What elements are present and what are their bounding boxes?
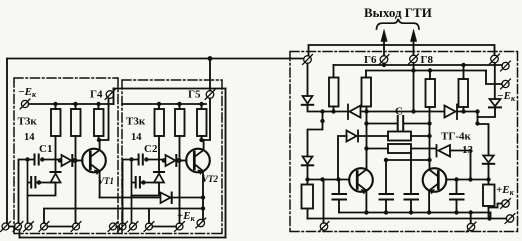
resistor R3 TG <box>429 71 431 80</box>
wire: C2g bottom stem <box>385 200 387 213</box>
wire: VD16 to corner into x477 <box>478 107 496 117</box>
node R7 top <box>486 177 490 181</box>
wire: R4 bottom stem to y112 wire <box>463 107 465 112</box>
wire: y70.5 rail (R2 - G8 - R3) <box>366 70 486 72</box>
node VD15 drop <box>468 177 472 181</box>
node Rb1 right <box>427 134 431 138</box>
pin input left of TG <box>303 55 313 65</box>
wire: C right lead <box>404 123 429 125</box>
node gnd pin drop <box>469 210 473 214</box>
wire: R1 bottom stem <box>333 107 335 112</box>
svg-text:14: 14 <box>24 132 35 143</box>
node: base junction block2 <box>177 158 181 162</box>
diode VD14 (pointing right, outline) feeding Rb1 <box>347 131 359 142</box>
wire: rail riser to G4 feed wire <box>113 89 115 105</box>
node c4g <box>454 210 458 214</box>
node on rail <box>73 102 77 106</box>
transistor VT1 <box>82 149 106 175</box>
wire: +Ek distribution to pins 4 and 9 <box>44 209 203 224</box>
capacitor C2 <box>139 155 143 165</box>
node on rail <box>96 102 100 106</box>
wire: VD4 bottom jog to pin8 <box>132 183 160 196</box>
wire: Rb2 right lead <box>411 148 437 150</box>
wire: C3g stems <box>410 153 412 213</box>
output arrow G8 <box>413 40 415 55</box>
wire: left outer drop to bottom pin <box>6 59 8 224</box>
node: lower capacitor riser on C2 wire <box>129 157 133 161</box>
wire: R7g bottom jog to +Ek pin <box>489 180 502 208</box>
capacitor C1 <box>35 155 39 165</box>
wire: Rb1 left lead <box>358 135 388 137</box>
node cross wire right <box>427 158 431 162</box>
long coupling wire y112 <box>323 111 478 113</box>
wire: VT2 collector up <box>203 140 205 150</box>
resistor Rb2 (horizontal) <box>388 144 411 153</box>
wire: Rb1 right lead <box>411 135 430 137</box>
wire: rail right corner down to lower wire <box>490 213 492 219</box>
node after C1 <box>40 157 44 161</box>
wire: cross wire to right collector <box>386 159 430 161</box>
wire: VT3 emitter down <box>365 191 367 213</box>
node G6 drop <box>383 63 385 65</box>
pin 3 <box>24 222 34 232</box>
wire: right pin chain down <box>494 63 496 99</box>
node after lower capacitor2 <box>141 180 145 184</box>
pin 9 <box>144 222 154 232</box>
wire: drop at x225 to bottom return <box>225 89 227 238</box>
resistor R7g (+Ek) <box>483 185 495 207</box>
svg-text:13: 13 <box>462 144 474 156</box>
wire: R5 bottom to base wire2 <box>179 136 181 161</box>
wire: bottom return wire <box>20 237 226 239</box>
wire: lower pin wire <box>308 218 507 220</box>
diode VD11 (pointing left, outline) on y112 <box>348 105 361 120</box>
diode VD4 block2 (vertical, pointing up) <box>154 172 164 183</box>
resistor R5 block2 <box>179 104 181 109</box>
node Rb2 left <box>364 146 368 150</box>
diode VD16 (down) right chain <box>489 99 501 107</box>
wire: diode to base VT2 <box>178 160 187 162</box>
wire: VD13 to base node <box>307 165 309 179</box>
output arrow G6 <box>383 40 385 56</box>
node base-left chain <box>305 177 309 181</box>
wire: base-left pin drop <box>323 180 325 223</box>
svg-text:Г5: Г5 <box>188 89 201 101</box>
node before diode <box>58 158 62 162</box>
wire: R1 bottom to diode VD2 <box>55 136 57 171</box>
wire: R7g drop to lower wire <box>488 208 490 219</box>
svg-text:−Eк: −Eк <box>18 86 37 99</box>
svg-text:ТГ-4к: ТГ-4к <box>441 131 471 143</box>
wire: R3 bottom to collector node <box>98 136 100 140</box>
node: emitter junction <box>201 195 205 199</box>
pin right lower <box>505 214 515 224</box>
node G8 drop on y112 <box>411 109 415 113</box>
node on lower wire <box>487 216 491 220</box>
node on rail <box>53 102 57 106</box>
diode VD1 block1 (series, pointing right) <box>62 155 73 166</box>
node after diode <box>72 158 76 162</box>
transistor VT3 (left of TG) <box>349 168 373 194</box>
wire: lower capacitor2 to diode branch <box>141 182 159 184</box>
wire: bottom return riser to pin <box>19 230 21 238</box>
node after lower capacitor <box>37 180 41 184</box>
wire: collector right vertical <box>429 107 431 169</box>
node R1 bottom <box>331 109 335 113</box>
node on +Ek riser <box>201 206 205 210</box>
transistor VT2 <box>186 149 210 175</box>
node: lower capacitor riser on C1 wire <box>25 157 29 161</box>
node G8 on y70.5 <box>411 68 415 72</box>
wire: long feed wire to right (y88) <box>114 88 226 90</box>
transistor VT4 (right of TG, mirrored) <box>423 168 447 194</box>
wire: VD17 to base-right node <box>488 164 490 180</box>
wire: C4g stems <box>456 180 458 213</box>
svg-text:Выход ГТИ: Выход ГТИ <box>364 5 432 20</box>
wire: VT1 collector up to node <box>99 140 101 150</box>
capacitor C3g <box>405 194 419 200</box>
node cap4 stem <box>454 177 458 181</box>
wire: R2 bottom to base wire <box>75 136 77 161</box>
wire: VT1 emitter down <box>99 171 101 198</box>
pin G4 <box>105 90 115 100</box>
pin bottom-left of TG <box>319 222 329 232</box>
svg-text:С: С <box>395 106 403 118</box>
diode VD13 (down) left lower <box>302 157 313 166</box>
wire: C2 to diode block2 <box>146 159 164 161</box>
capacitor C <box>398 116 404 130</box>
wire: R6g top stem <box>307 180 309 185</box>
node e3 <box>364 210 368 214</box>
wire pin4-pin5 <box>48 226 73 228</box>
brace over output arrows <box>377 19 420 29</box>
node before diode2 <box>162 158 166 162</box>
wire: diode to VT2 emitter node <box>172 197 203 199</box>
svg-text:Т3к: Т3к <box>18 116 38 128</box>
pin 8 <box>128 222 138 232</box>
node c3g <box>409 210 413 214</box>
wire: cap2 top stem <box>385 160 387 194</box>
node R3 top <box>428 68 432 72</box>
pin at right end of y65 <box>501 61 511 71</box>
resistor R1 TG <box>333 65 335 78</box>
wire: diode to corner and into y112 wire <box>308 105 323 112</box>
pin -Ek right top <box>490 54 500 64</box>
resistor Rb1 (horizontal) <box>388 132 411 141</box>
node x322 y121 <box>320 119 324 123</box>
wire: y65 rail (R1 top to pin) <box>334 64 503 66</box>
wire: VD14 anode riser from base-left node <box>338 136 347 180</box>
node cross left <box>384 158 388 162</box>
wire: jog to VD17 <box>478 124 489 155</box>
capacitor C2g <box>380 194 394 200</box>
wire: VT4 emitter down <box>428 191 430 213</box>
wire: VT3 collector join <box>365 169 367 170</box>
wire: C1 left lead and riser to bottom pin <box>19 160 34 224</box>
svg-text:С2: С2 <box>144 143 158 155</box>
node: base junction block1 <box>73 158 77 162</box>
node right end y112 <box>475 109 479 113</box>
resistor R3 block1 <box>98 104 100 109</box>
wire: -Ek rail of block1 <box>29 103 114 105</box>
wire: x322 drop to lower jog <box>308 112 323 157</box>
wire: G4 pin drop to collector node <box>99 99 109 141</box>
node cap C left <box>364 121 368 125</box>
wire: C1 to diode <box>42 159 60 161</box>
pin 2 <box>13 222 23 232</box>
wire pin9-pin10 <box>153 226 177 228</box>
pin -Ek of block1 <box>20 99 30 109</box>
diode VD10 (down) on left chain <box>302 96 313 105</box>
pin 7 <box>118 222 128 232</box>
node after C2 <box>144 157 148 161</box>
node on rail2 <box>157 102 161 106</box>
wire: C2 left lead and riser to pin <box>123 160 138 224</box>
wire: C1g stems <box>338 180 340 213</box>
node after diode2 <box>176 158 180 162</box>
pin 10 <box>175 222 185 232</box>
resistor R2 TG <box>365 71 367 78</box>
node on rail2 <box>199 102 203 106</box>
wire: lower capacitor to diode branch <box>37 182 56 184</box>
wire: inner top rail <box>309 45 495 56</box>
wire: VT4 collector join <box>428 169 430 170</box>
capacitor C1g (under base-left) <box>333 194 347 200</box>
wire pin1-pin2 <box>9 226 15 228</box>
resistor R6g (bottom left) <box>302 185 314 209</box>
node: collector junction block1 <box>97 138 101 142</box>
pin 6 <box>108 222 118 232</box>
svg-text:+Eк: +Eк <box>496 184 515 197</box>
resistor R4 TG <box>463 65 465 79</box>
pin G5 <box>205 90 215 100</box>
wire: R6 bottom to collector node2 <box>201 136 203 140</box>
capacitor C4g <box>450 194 464 200</box>
node cap C right <box>427 121 431 125</box>
wire: G8 pin drop <box>413 63 415 112</box>
resistor R6 block2 <box>201 104 203 109</box>
wire: y70.5 to pin at y84 <box>486 71 502 85</box>
svg-text:14: 14 <box>131 132 142 143</box>
wire: R4 bottom to diode VD4 <box>158 136 160 171</box>
capacitor block1 lower (with bent lead) <box>31 177 35 188</box>
node c2g <box>384 210 388 214</box>
node: collector junction block2 <box>199 138 203 142</box>
wire: top interconnect from left group to right module <box>7 58 303 60</box>
pin G6 <box>379 55 389 65</box>
wire: G5 pin drop to collector node block2 <box>202 99 211 141</box>
diode VD12 (pointing right, outline) on y112 <box>445 105 458 120</box>
dashed module box TG-4x (right) <box>290 52 518 232</box>
wire: VD15 to right base drop <box>450 151 471 181</box>
wire: collector left vertical <box>366 107 368 169</box>
wire: diode to base VT1 <box>74 160 83 162</box>
pin 4 <box>39 222 49 232</box>
pin G8 <box>409 54 419 64</box>
node on rail2 <box>177 102 181 106</box>
wire: node to +Ek pin <box>202 171 204 219</box>
resistor R2 block1 <box>75 104 77 109</box>
wire: VD2 bottom jog to pin3 <box>28 183 56 196</box>
wire: base junction riser down to pin <box>75 161 77 224</box>
wire: emitter rail to +Ek pin (bottom of left group) <box>100 197 160 199</box>
diode VD17 (down) right lower <box>483 156 494 164</box>
node: junction on top wire feeding G5 <box>208 56 213 61</box>
pin at y84 <box>501 79 511 89</box>
node R4b top <box>461 63 465 67</box>
diode VD3 block2 (series, pointing right) <box>166 155 177 166</box>
svg-text:С1: С1 <box>39 143 52 155</box>
wire: gnd pin drop <box>470 213 472 224</box>
pin +Ek right <box>501 199 511 209</box>
svg-text:Г4: Г4 <box>90 89 103 101</box>
wire pin6-pin7 <box>117 226 120 228</box>
pin +Ek left group <box>196 218 206 228</box>
wire: left base wire <box>308 179 350 181</box>
pin gnd bottom <box>466 222 476 232</box>
resistor R1 block1 <box>55 104 57 109</box>
node R4 bottom on y112 <box>461 109 465 113</box>
diode VD15 (pointing left, outline) after Rb2 <box>437 145 451 157</box>
svg-text:Т3к: Т3к <box>126 116 146 128</box>
wire: left pin chain down <box>307 64 309 97</box>
wire: base junction riser to pin <box>179 161 181 224</box>
dashed module box TZk 14 (second) <box>122 80 222 234</box>
pin 5 <box>71 222 81 232</box>
wire: R6g bottom to lower pin wire <box>307 209 309 219</box>
resistor R4 block2 <box>158 104 160 109</box>
node e4 <box>427 210 431 214</box>
wire: right base wire <box>446 179 488 181</box>
pin 1 <box>1 222 11 232</box>
dashed module box TZk 14 (left) <box>14 78 222 234</box>
capacitor block2 lower <box>136 177 140 188</box>
node x322 on y112 <box>320 109 324 113</box>
diode VD2 block1 (vertical, pointing up) <box>51 172 61 183</box>
diode VD5 (series bottom, pointing right) <box>161 193 172 204</box>
node x477 y123.5 <box>475 121 479 125</box>
wire: Rb2 left lead to collector-left <box>367 148 389 150</box>
node R2/collector-left on y112 <box>364 109 368 113</box>
wire: x477 drop <box>477 112 479 125</box>
svg-text:VТ2: VТ2 <box>202 174 219 184</box>
wire: -Ek rail of block2 <box>122 103 206 105</box>
wire: drop from top wire to pin G5 <box>209 59 211 91</box>
wire: emitter ground rail <box>339 212 491 214</box>
node pin drop on base wire <box>320 177 324 181</box>
node cap1/Rb1 riser on base wire <box>336 177 340 181</box>
wire: C left lead <box>367 123 397 125</box>
